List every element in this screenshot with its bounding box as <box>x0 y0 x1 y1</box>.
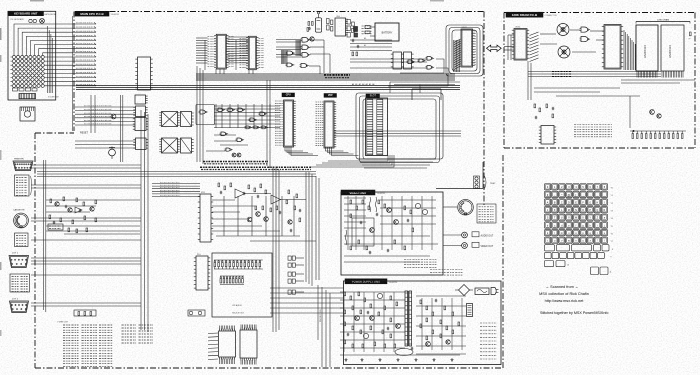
power supply box <box>344 281 502 365</box>
net label strip row2 <box>200 167 311 169</box>
bridge rectifier D5 <box>455 285 473 296</box>
IC U30 kbd interface <box>219 326 236 365</box>
pin labels right of U8 <box>472 31 477 65</box>
printer connector CN3 <box>13 161 33 171</box>
IC U26 PPI 8255 <box>198 192 213 242</box>
osc label rows <box>362 26 372 34</box>
label PRINTER <box>14 159 24 161</box>
gate U9b <box>426 65 435 69</box>
wire bus center-right vertical <box>306 172 319 286</box>
net label strip RAS/CAS row1 <box>203 162 268 164</box>
mux U14 74LS157 <box>181 112 194 127</box>
keyboard ribbon wires to main <box>75 106 135 148</box>
dark parts cluster <box>354 27 358 38</box>
cassette interface components <box>49 197 97 224</box>
battery BT1 <box>370 23 399 41</box>
resistor R2 <box>356 52 358 56</box>
IC U12 small <box>133 138 148 150</box>
inverter U25 <box>225 148 233 151</box>
fuse F1 <box>475 288 489 295</box>
wire video top right corner <box>436 162 483 189</box>
note text block video <box>430 270 463 276</box>
power supply transistors Q7-Q11 <box>355 293 451 346</box>
wire hatch gates <box>282 40 301 64</box>
wires video unit <box>344 196 438 262</box>
power supply passives <box>344 292 460 348</box>
crystal passives <box>307 22 313 32</box>
gate U23d <box>249 118 258 122</box>
wires under slot <box>310 155 394 167</box>
signal table header <box>57 322 69 324</box>
scan edge marks <box>1 1 444 336</box>
label CPU <box>282 93 295 97</box>
wires middle logic lower <box>206 135 248 151</box>
key legend row 10 shift keys <box>545 261 570 267</box>
key legend row 8 wide keys <box>545 245 615 251</box>
keyboard sub-label text <box>11 18 25 21</box>
gate U23a <box>217 108 226 112</box>
jumper pads J3-J7 <box>288 256 304 294</box>
gate U7e <box>300 64 309 68</box>
label RESET <box>80 132 89 135</box>
label VIDEO UNIT <box>341 190 385 195</box>
cartridge slot connector CN7 <box>366 98 388 156</box>
capacitor C2 <box>357 45 359 49</box>
power parts list text <box>480 323 497 359</box>
wires gate array to slot <box>390 82 460 93</box>
keyboard plug CN2 <box>20 107 35 121</box>
audio passives R/C cluster <box>218 183 267 198</box>
IC U3 ROM 32K <box>208 34 234 69</box>
cassette interface box <box>48 224 63 230</box>
IC U1 keyboard decoder <box>135 57 152 90</box>
DRAM pcb passives <box>534 104 554 119</box>
wires audio section <box>212 194 316 242</box>
IC U17 <box>391 52 404 69</box>
wires video outputs <box>443 207 462 246</box>
pointer hand mark <box>688 37 691 41</box>
IC U31 joy interface <box>240 325 257 365</box>
parts column right of U6 <box>347 20 354 38</box>
diode D4 <box>365 26 370 29</box>
transformer T1 <box>405 291 412 346</box>
signal table right column 2 <box>139 325 154 343</box>
wires arrow to U40 <box>504 35 514 60</box>
AC plug P1 <box>491 288 499 295</box>
gate U41a <box>580 27 591 32</box>
wire pair cassette <box>44 160 46 312</box>
test pins TP1-TP3 <box>474 176 497 189</box>
wire DRAM bus rows <box>528 72 661 77</box>
label MAIN CPU P.C.B <box>75 11 119 16</box>
key legend matrix rows 0-7 <box>545 184 613 244</box>
video unit components <box>350 200 428 254</box>
bus loop around gate array <box>446 25 483 76</box>
keyboard key switch matrix <box>11 55 56 88</box>
audio passives cluster 3 <box>286 190 301 232</box>
keyboard special key row <box>13 88 38 91</box>
label VDP <box>324 94 337 98</box>
RGB pin table <box>477 204 496 223</box>
label JOY 1 <box>12 253 19 255</box>
transistor Q4 <box>247 217 252 222</box>
gate U9d <box>407 60 416 64</box>
gate U23e <box>259 112 268 116</box>
parts pair column <box>327 19 333 32</box>
gate U41b <box>580 37 591 42</box>
op-amp U28 <box>235 189 245 198</box>
wires clock to gates <box>350 37 392 51</box>
DRAM signal list text <box>574 125 612 137</box>
wire loop around slot <box>356 93 443 163</box>
RCA jack J1 audio <box>462 232 468 238</box>
wire VDP to slot bus <box>334 131 461 136</box>
IC U43 DRAM bank 0 <box>636 25 658 78</box>
wire hatch U42 to DRAM <box>624 30 635 70</box>
RCA jack J2 video <box>462 243 468 249</box>
wires to power supply <box>270 288 344 313</box>
gate U22a <box>199 110 208 114</box>
mux U15 74LS153 <box>159 138 179 153</box>
oscillator Q21 <box>558 46 570 58</box>
gate U9c <box>418 59 426 62</box>
video unit note text <box>404 260 437 268</box>
wires gates cluster <box>276 40 330 75</box>
printer pin list <box>15 175 32 196</box>
keyboard unit box <box>8 11 56 100</box>
wire data bus <box>76 86 460 90</box>
video unit box <box>341 192 443 275</box>
IC U2 <box>135 95 148 104</box>
label SLOT <box>366 94 380 98</box>
joystick connector CN6 <box>10 301 29 313</box>
label in filter box <box>232 304 245 315</box>
bus labels A0-A7 <box>352 83 375 86</box>
wires cassette interface <box>46 200 140 234</box>
power output connector CN9 <box>467 304 473 317</box>
main CPU PCB border (dash-dot frame) <box>35 12 503 369</box>
IC U21 VDP TMS9928 <box>316 101 337 148</box>
IC U8 gate array S1985 <box>454 27 475 70</box>
cassette pin list <box>15 233 29 247</box>
signal table column 3 <box>99 325 113 366</box>
joystick pin table <box>10 274 30 292</box>
wires gates to gate array <box>350 59 448 86</box>
wire bus drop center <box>267 80 270 168</box>
wire stub ROM bottom <box>205 40 253 74</box>
video coils L1-L3 <box>346 197 377 245</box>
wire address bus A0-A15 <box>196 74 455 80</box>
transistor Q23 <box>657 114 661 118</box>
gate U23b <box>227 108 236 112</box>
wire reset vertical pair <box>91 95 123 162</box>
cassette DIN connector CN4 <box>14 213 29 228</box>
wire mesh middle logic <box>214 104 280 128</box>
transistor Q2 <box>232 153 236 157</box>
transistor Q3 <box>237 153 241 157</box>
IC U6 74LS04 <box>335 16 348 36</box>
label AUDIO OUT <box>472 232 494 238</box>
wire hatch left of U30 <box>208 333 218 360</box>
power supply caps <box>347 299 437 351</box>
wire bus keyboard right edge <box>48 26 53 93</box>
wire bus center vertical <box>273 168 279 332</box>
IC U44 DRAM bank 1 <box>661 25 684 78</box>
mux U13 74LS157 <box>159 112 179 127</box>
wire bundle left of U8 <box>454 40 460 72</box>
wire bundle to PSU bottom <box>318 285 330 367</box>
wires DRAM pcb <box>528 61 695 128</box>
IC U20 Z80A CPU <box>275 100 296 147</box>
gate U7f <box>286 63 295 67</box>
box around gate U22 <box>196 105 215 125</box>
regulator oval <box>395 349 413 356</box>
keyboard speaker BZ1 <box>40 18 45 23</box>
sub box below gate array <box>412 89 441 100</box>
wire bus to video section <box>37 172 316 177</box>
gate U23c <box>237 108 246 112</box>
mux U16 74LS153 <box>181 138 194 153</box>
label SOLDER SIDE <box>48 97 59 99</box>
IC U42 ring counter <box>602 25 623 70</box>
wires DRAM osc to counter <box>540 30 604 52</box>
resistor array RA1 <box>214 260 263 269</box>
keyboard LED D2 <box>33 19 36 22</box>
wires between ROM and RAM <box>228 37 249 63</box>
gate U9a <box>426 57 435 61</box>
oscillator Q20 <box>557 24 569 36</box>
key legend row 9 <box>545 252 613 258</box>
wire bus vertical left <box>141 110 148 332</box>
filter box <box>212 253 272 317</box>
wires slot wrap to left <box>358 159 436 168</box>
RGB DIN connector CN8 <box>458 199 474 215</box>
transistor Q5 <box>256 212 261 217</box>
wires left connectors to main board <box>31 165 141 306</box>
keyboard column fan wires <box>14 24 56 55</box>
transistor Q6 <box>264 217 269 222</box>
resistor R3 <box>365 31 370 34</box>
label JOY 2 <box>12 299 19 301</box>
component right of joy <box>188 310 205 316</box>
resistor array RA2 <box>220 276 244 285</box>
wire bus drop left <box>197 66 203 164</box>
bracket 128K DRAM <box>636 19 690 24</box>
audio passives cluster 2 <box>255 206 281 214</box>
capacitor C1 <box>352 39 354 43</box>
power supply ground symbols <box>345 358 454 361</box>
resistor network RA3 <box>630 130 686 138</box>
label VIDEO OUT <box>472 242 494 248</box>
joystick connector CN5 <box>9 256 29 268</box>
bus labels A8-A15 D0-D7 <box>324 75 350 78</box>
transistor Q12 <box>310 37 314 41</box>
signal table right column 1 <box>122 325 137 343</box>
transistor Q22 <box>650 110 655 115</box>
wires under CPU and VDP <box>285 147 359 156</box>
gates U7 a-c <box>301 38 311 58</box>
wires into PPI <box>152 183 200 197</box>
key legend graph keys <box>591 267 612 275</box>
wires power supply <box>340 292 466 355</box>
op-amp U29 <box>271 195 281 204</box>
arrow bus link main-to-DRAM <box>487 45 502 51</box>
gate U24a <box>220 132 229 136</box>
gate U24b <box>236 138 245 142</box>
label PROTECTOR <box>320 309 322 322</box>
resistor R1 <box>352 52 354 56</box>
IC U27 PSG <box>194 254 210 290</box>
video sub box <box>352 218 374 246</box>
IC U40 buffer <box>512 27 539 62</box>
label POWER SUPPLY UNIT <box>345 279 397 284</box>
crystal X1 <box>315 12 321 32</box>
label 128K DRAM P.C.B <box>506 12 557 17</box>
small box joy area <box>74 310 96 316</box>
IC U45 <box>539 126 556 145</box>
IC U11 small <box>133 118 148 131</box>
inverter row <box>245 126 269 129</box>
reset transistor Q1 <box>111 114 116 119</box>
keyboard exit wires with net labels <box>56 22 96 85</box>
keyboard connector CN1 <box>19 94 36 99</box>
signal table column 2 <box>82 325 98 366</box>
resistor R20 <box>690 32 692 36</box>
IC U10 small <box>133 106 147 117</box>
label CASSETTE <box>13 209 25 212</box>
gate U7d <box>286 51 295 55</box>
reset switch SW1 <box>109 147 116 160</box>
IC U4 RAM <box>240 36 264 69</box>
credit text scanned-from <box>539 285 608 315</box>
wire bundle into ROM <box>196 38 208 63</box>
IC U18 <box>404 52 414 69</box>
label KEYBOARD UNIT <box>8 11 56 16</box>
keyboard LED D1 <box>29 19 32 22</box>
cassette components row 2 <box>68 228 88 233</box>
signal table column 1 <box>63 325 79 366</box>
128K DRAM PCB border (dash-dot frame) <box>504 13 695 149</box>
